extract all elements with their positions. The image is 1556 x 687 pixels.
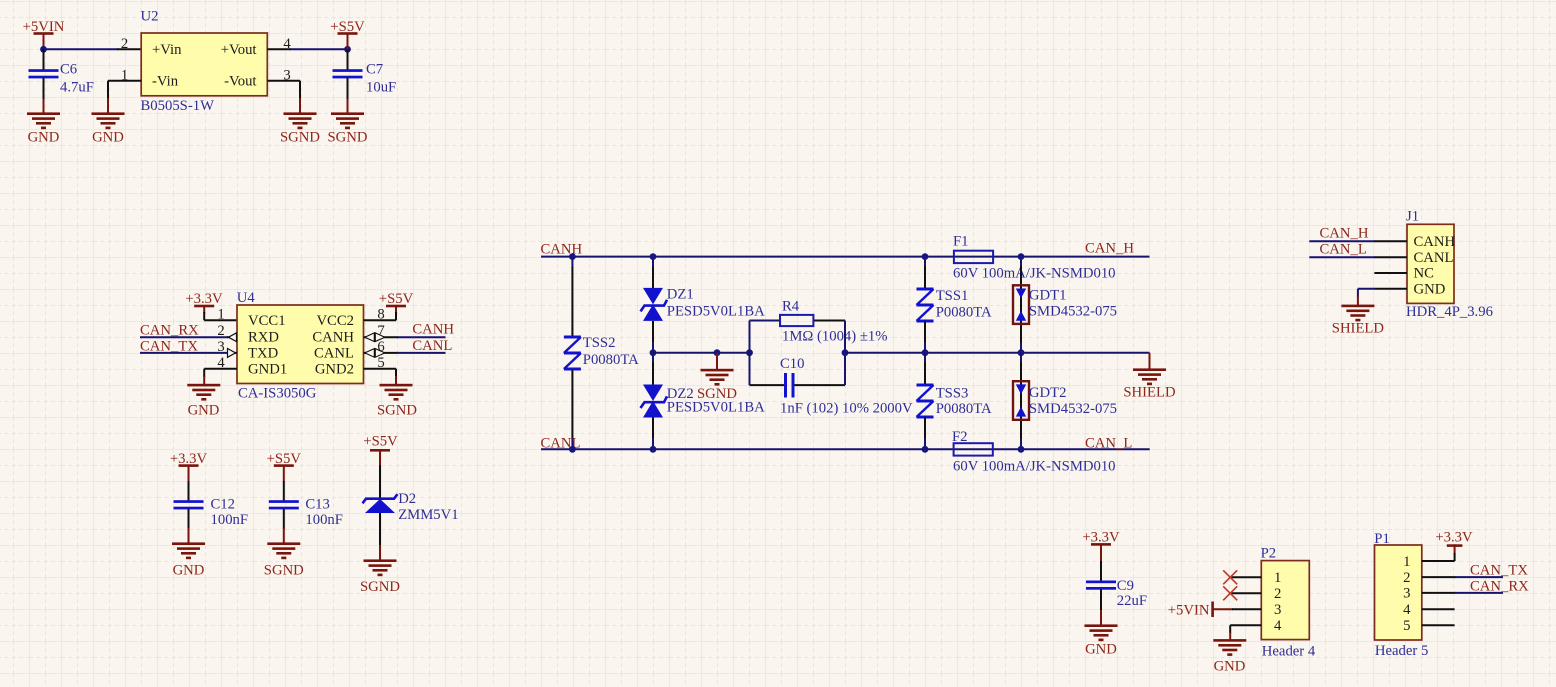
svg-text:CANL: CANL bbox=[314, 346, 354, 362]
svg-text:+Vin: +Vin bbox=[152, 42, 182, 58]
wire CANL bus bbox=[541, 448, 1150, 450]
svg-text:1: 1 bbox=[1403, 554, 1410, 570]
net label CAN_TX at P1 bbox=[1470, 563, 1528, 579]
wire C10 bottom branch bbox=[750, 384, 846, 386]
svg-text:R4: R4 bbox=[782, 299, 800, 315]
svg-text:+5VIN: +5VIN bbox=[1168, 603, 1210, 619]
svg-text:CAN_H: CAN_H bbox=[1085, 241, 1134, 257]
junction CANL/TSS2 bbox=[569, 446, 576, 453]
svg-text:+S5V: +S5V bbox=[363, 434, 398, 450]
svg-text:C7: C7 bbox=[366, 62, 383, 78]
ground SGND at U2 pin 3 bbox=[280, 112, 320, 145]
svg-text:TSS3: TSS3 bbox=[936, 385, 969, 401]
svg-text:VCC2: VCC2 bbox=[316, 313, 354, 329]
U4 pin 5 number bbox=[377, 355, 384, 371]
capacitor C6 4.7uF bbox=[29, 49, 94, 113]
svg-text:C10: C10 bbox=[780, 356, 804, 372]
svg-text:U2: U2 bbox=[141, 8, 159, 24]
wire U4 pin 8 to +S5V bbox=[364, 312, 397, 320]
junction CANH/TSS2 bbox=[569, 253, 576, 260]
svg-text:SGND: SGND bbox=[264, 563, 304, 579]
svg-text:HDR_4P_3.96: HDR_4P_3.96 bbox=[1406, 304, 1493, 320]
svg-text:10uF: 10uF bbox=[366, 80, 396, 96]
wire DZ2 to CANL bbox=[652, 418, 654, 450]
svg-text:VCC1: VCC1 bbox=[248, 313, 286, 329]
net label CAN_RX at P1 bbox=[1470, 578, 1529, 594]
wire U2 pin 3 to SGND bbox=[267, 81, 300, 114]
svg-text:3: 3 bbox=[1274, 602, 1281, 618]
svg-text:B0505S-1W: B0505S-1W bbox=[141, 98, 215, 114]
power port +3.3V at C12 bbox=[170, 451, 208, 482]
wire TSS3 to CANL bbox=[924, 417, 926, 449]
U2 pin 1 number bbox=[121, 68, 128, 84]
wire +3.3V to U4 pin 1 bbox=[204, 312, 237, 320]
wire GDT1 to mid node bbox=[1020, 343, 1022, 353]
net label CAN_TX bbox=[140, 338, 198, 354]
connector P1 Header 5 body bbox=[1374, 531, 1428, 659]
wire R4 top branch bbox=[750, 320, 846, 322]
svg-text:CANH: CANH bbox=[541, 242, 583, 258]
U4 pin 8 number bbox=[377, 307, 384, 323]
junction CANL/GDT2 bbox=[1018, 446, 1025, 453]
ground GND at U2 pin 1 bbox=[92, 112, 125, 145]
junction mid/R4-C10 left bbox=[746, 349, 753, 356]
ground GND under C6 bbox=[27, 112, 60, 145]
svg-text:CANH: CANH bbox=[312, 329, 354, 345]
junction mid/R4-C10 right bbox=[842, 349, 849, 356]
ground GND under U4 bbox=[187, 384, 220, 419]
op-amp U2 B0505S-1W body bbox=[141, 8, 268, 114]
ground SHIELD at mid node bbox=[1123, 353, 1176, 401]
svg-text:-Vin: -Vin bbox=[152, 73, 179, 89]
net label CANL (bus) bbox=[541, 435, 581, 451]
svg-text:C9: C9 bbox=[1117, 578, 1134, 594]
wire GDT2 to CANL bbox=[1020, 439, 1022, 449]
wire CAN_TX to U4 pin 3 bbox=[140, 349, 237, 358]
svg-text:CANH: CANH bbox=[412, 322, 454, 338]
svg-text:3: 3 bbox=[1403, 586, 1410, 602]
svg-text:Header 4: Header 4 bbox=[1262, 644, 1316, 660]
net label CAN_L at J1 bbox=[1320, 241, 1367, 257]
junction mid/SGND bbox=[714, 349, 721, 356]
wire U4 pin 5 to SGND bbox=[364, 369, 397, 385]
capacitor C9 22uF bbox=[1086, 561, 1147, 626]
ground SGND at mid node bbox=[697, 353, 737, 402]
power port +S5V at C13 bbox=[267, 451, 302, 482]
svg-text:TXD: TXD bbox=[248, 346, 279, 362]
svg-text:CAN_L: CAN_L bbox=[1085, 435, 1132, 451]
svg-text:P0080TA: P0080TA bbox=[583, 352, 639, 368]
wire P2 pin 1 stub bbox=[1230, 576, 1261, 578]
transceiver U4 CA-IS3050G body bbox=[237, 290, 364, 402]
wire DZ1 to mid node bbox=[652, 321, 654, 353]
svg-text:100nF: 100nF bbox=[211, 512, 249, 528]
wire mid node to DZ2 bbox=[652, 353, 654, 385]
capacitor C12 100nF bbox=[174, 481, 249, 544]
no-ERC cross P2 pin 2 bbox=[1223, 586, 1237, 600]
wire CANH to TSS1 bbox=[924, 257, 926, 288]
svg-text:60V 100mA/JK-NSMD010: 60V 100mA/JK-NSMD010 bbox=[953, 266, 1116, 282]
svg-text:+3.3V: +3.3V bbox=[1435, 530, 1473, 546]
svg-text:CAN_TX: CAN_TX bbox=[1470, 563, 1528, 579]
svg-text:SHIELD: SHIELD bbox=[1332, 321, 1385, 337]
wire CANH to DZ1 bbox=[652, 257, 654, 288]
power port +S5V at D2 bbox=[363, 434, 398, 466]
TVS diode DZ2 PESD5V0L1BA bbox=[641, 385, 766, 418]
wire U4 pin 7 to CANH label bbox=[364, 333, 446, 342]
junction mid/DZ1 bbox=[650, 349, 657, 356]
power port +3.3V at C9 bbox=[1082, 530, 1120, 562]
wire CANH to TSS2 bbox=[571, 257, 573, 336]
wire U2 pin 4 to +S5V node bbox=[267, 48, 347, 50]
wire mid node to TSS3 bbox=[924, 353, 926, 385]
svg-text:U4: U4 bbox=[237, 290, 256, 306]
TVS diode DZ1 PESD5V0L1BA bbox=[641, 286, 766, 321]
junction CANL/DZ2 bbox=[650, 446, 657, 453]
U2 pin 4 number bbox=[283, 36, 291, 52]
svg-text:GND: GND bbox=[92, 130, 124, 146]
wire TSS1 to mid node bbox=[924, 321, 926, 353]
wire P1 pin 2 to CAN_TX bbox=[1422, 576, 1503, 578]
svg-text:4: 4 bbox=[1274, 618, 1282, 634]
U4 pin 7 number bbox=[377, 323, 384, 339]
wire P1 pin 5 stub bbox=[1422, 624, 1455, 626]
svg-text:-Vout: -Vout bbox=[224, 73, 256, 89]
junction CANH/GDT1 bbox=[1018, 253, 1025, 260]
svg-text:SHIELD: SHIELD bbox=[1123, 385, 1176, 401]
svg-text:F1: F1 bbox=[953, 233, 969, 249]
suppressor TSS1 P0080TA bbox=[917, 288, 993, 321]
svg-text:C6: C6 bbox=[60, 62, 77, 78]
U2 pin 2 number bbox=[121, 36, 128, 52]
svg-text:4.7uF: 4.7uF bbox=[60, 80, 94, 96]
no-ERC cross P2 pin 1 bbox=[1223, 570, 1237, 584]
U2 pin 3 number bbox=[283, 68, 290, 84]
svg-text:P2: P2 bbox=[1261, 546, 1277, 562]
svg-text:100nF: 100nF bbox=[305, 512, 343, 528]
wire CAN_L to J1 pin 2 bbox=[1309, 256, 1407, 258]
wire P1 pin 4 stub bbox=[1422, 608, 1455, 610]
svg-text:1: 1 bbox=[217, 307, 224, 323]
svg-text:SGND: SGND bbox=[377, 403, 417, 419]
svg-text:NC: NC bbox=[1414, 266, 1434, 282]
gas discharge tube GDT2 SMD4532-075 bbox=[1013, 381, 1117, 420]
svg-text:TSS2: TSS2 bbox=[583, 335, 616, 351]
power port +3.3V at P1 pin 1 bbox=[1435, 530, 1473, 554]
ground SGND under U4 bbox=[377, 384, 417, 419]
power port +3.3V at U4 pin 1 bbox=[185, 291, 223, 313]
U4 pin 4 number bbox=[217, 355, 225, 371]
svg-text:DZ1: DZ1 bbox=[667, 286, 694, 302]
svg-text:CAN_H: CAN_H bbox=[1320, 226, 1369, 242]
wire P2 pin 4 to GND bbox=[1230, 625, 1261, 640]
svg-text:GND: GND bbox=[1214, 659, 1246, 675]
svg-text:SMD4532-075: SMD4532-075 bbox=[1029, 304, 1117, 320]
svg-text:5: 5 bbox=[1403, 618, 1410, 634]
ground SGND under D2 bbox=[360, 559, 400, 595]
svg-text:2: 2 bbox=[1403, 570, 1410, 586]
svg-text:2: 2 bbox=[121, 36, 128, 52]
U4 pin 3 number bbox=[217, 339, 224, 355]
junction mid/GDT1 bbox=[1018, 349, 1025, 356]
svg-text:GND: GND bbox=[173, 563, 205, 579]
wire +5VIN to P2 pin 3 bbox=[1232, 608, 1261, 610]
junction CANH/DZ1 bbox=[650, 253, 657, 260]
net label CAN_H (bus right) bbox=[1085, 241, 1134, 257]
svg-text:C13: C13 bbox=[305, 496, 329, 512]
ground GND under C9 bbox=[1085, 624, 1118, 657]
fuse F2 60V 100mA bbox=[952, 429, 1116, 475]
ground SGND under C13 bbox=[264, 542, 304, 578]
wire CANH to GDT1 bbox=[1020, 257, 1022, 344]
wire R4/C10 right branch bbox=[844, 321, 846, 386]
connector J1 HDR_4P_3.96 body bbox=[1406, 208, 1493, 320]
svg-text:GDT2: GDT2 bbox=[1029, 385, 1067, 401]
zener diode D2 ZMM5V1 bbox=[363, 465, 459, 561]
wire CAN_RX to U4 pin 2 bbox=[140, 333, 237, 342]
net label CAN_L (bus right) bbox=[1085, 435, 1132, 451]
svg-text:SMD4532-075: SMD4532-075 bbox=[1029, 401, 1117, 417]
wire P2 pin 2 stub bbox=[1230, 592, 1261, 594]
resistor R4 1M bbox=[780, 299, 887, 345]
wire CAN_H to J1 pin 1 bbox=[1309, 240, 1407, 242]
wire CANH bus bbox=[541, 256, 1150, 258]
gas discharge tube GDT1 SMD4532-075 bbox=[1013, 285, 1117, 324]
svg-text:+S5V: +S5V bbox=[379, 291, 414, 307]
power port +S5V at U4 pin 8 bbox=[379, 291, 414, 313]
svg-text:TSS1: TSS1 bbox=[936, 288, 969, 304]
U4 pin 2 number bbox=[217, 323, 224, 339]
wire P1 pin 1 to +3.3V bbox=[1422, 553, 1455, 561]
node junction +5VIN / C6 bbox=[40, 46, 47, 53]
capacitor C10 1nF bbox=[780, 356, 913, 417]
wire mid node (shield bus right) bbox=[845, 352, 1150, 354]
svg-text:CANL: CANL bbox=[1414, 250, 1454, 266]
capacitor C7 10uF bbox=[333, 49, 397, 113]
net label CANH (bus) bbox=[541, 242, 583, 258]
connector P2 Header 4 body bbox=[1261, 546, 1316, 660]
svg-text:4: 4 bbox=[1403, 602, 1411, 618]
wire mid node (shield bus left) bbox=[653, 352, 750, 354]
svg-text:1nF (102) 10% 2000V: 1nF (102) 10% 2000V bbox=[780, 401, 913, 417]
svg-text:22uF: 22uF bbox=[1117, 593, 1147, 609]
svg-text:PESD5V0L1BA: PESD5V0L1BA bbox=[667, 303, 765, 319]
svg-text:P0080TA: P0080TA bbox=[936, 305, 992, 321]
power port +5VIN bbox=[23, 19, 65, 50]
svg-text:RXD: RXD bbox=[248, 329, 279, 345]
svg-text:1: 1 bbox=[1274, 570, 1281, 586]
fuse F1 60V 100mA bbox=[953, 233, 1116, 281]
svg-text:P1: P1 bbox=[1374, 531, 1390, 547]
svg-text:GND: GND bbox=[188, 403, 220, 419]
net label CANL at U4 bbox=[412, 338, 452, 354]
svg-text:CAN_L: CAN_L bbox=[1320, 241, 1367, 257]
wire +5VIN node to U2 pin 2 bbox=[44, 48, 142, 50]
svg-text:GND: GND bbox=[28, 130, 60, 146]
svg-text:P0080TA: P0080TA bbox=[936, 401, 992, 417]
svg-text:+3.3V: +3.3V bbox=[185, 291, 223, 307]
svg-text:GND: GND bbox=[1414, 282, 1446, 298]
net label CAN_RX bbox=[140, 323, 199, 339]
node junction +S5V / C7 bbox=[344, 46, 351, 53]
power port +5VIN at P2 pin 3 bbox=[1168, 602, 1233, 619]
svg-text:SGND: SGND bbox=[697, 386, 737, 402]
wire J1 pin 3 NC stub bbox=[1374, 272, 1407, 274]
svg-text:+Vout: +Vout bbox=[221, 42, 257, 58]
U4 pin 1 number bbox=[217, 307, 224, 323]
ground GND under P2 bbox=[1213, 639, 1246, 675]
U4 pin 6 number bbox=[377, 339, 384, 355]
svg-text:CANH: CANH bbox=[1414, 234, 1456, 250]
wire mid node to GDT2 bbox=[1020, 353, 1022, 440]
suppressor TSS2 P0080TA bbox=[564, 335, 639, 369]
junction CANL/TSS3 bbox=[922, 446, 929, 453]
svg-text:SGND: SGND bbox=[328, 130, 368, 146]
svg-text:CAN_RX: CAN_RX bbox=[1470, 578, 1529, 594]
svg-text:SGND: SGND bbox=[280, 130, 320, 146]
wire U4 pin 6 to CANL label bbox=[364, 349, 446, 358]
power port +S5V bbox=[330, 19, 365, 50]
wire U2 pin 1 to GND bbox=[108, 81, 141, 114]
wire P1 pin 3 to CAN_RX bbox=[1422, 592, 1503, 594]
net label CANH at U4 bbox=[412, 322, 454, 338]
wire TSS2 to CANL bbox=[571, 370, 573, 449]
junction mid/TSS1 bbox=[922, 349, 929, 356]
ground SHIELD at J1 bbox=[1332, 305, 1385, 337]
svg-text:1MΩ (1004) ±1%: 1MΩ (1004) ±1% bbox=[782, 328, 887, 344]
svg-text:ZMM5V1: ZMM5V1 bbox=[398, 507, 458, 523]
svg-text:J1: J1 bbox=[1406, 208, 1419, 224]
svg-text:2: 2 bbox=[1274, 586, 1281, 602]
wire R4/C10 left branch bbox=[749, 321, 751, 386]
svg-text:CANL: CANL bbox=[412, 338, 452, 354]
svg-text:GND2: GND2 bbox=[315, 362, 354, 378]
wire U4 pin 4 to GND bbox=[204, 369, 237, 385]
capacitor C13 100nF bbox=[269, 481, 343, 544]
ground SGND under C7 bbox=[328, 112, 368, 145]
net label CAN_H at J1 bbox=[1320, 226, 1369, 242]
ground GND under C12 bbox=[172, 542, 205, 578]
svg-text:D2: D2 bbox=[398, 491, 416, 507]
svg-text:GND: GND bbox=[1085, 642, 1117, 658]
wire J1 pin 4 to SHIELD bbox=[1358, 289, 1407, 306]
svg-text:60V 100mA/JK-NSMD010: 60V 100mA/JK-NSMD010 bbox=[953, 459, 1116, 475]
svg-text:F2: F2 bbox=[952, 429, 968, 445]
svg-text:Header 5: Header 5 bbox=[1375, 643, 1428, 659]
svg-text:C12: C12 bbox=[211, 496, 235, 512]
svg-text:GND1: GND1 bbox=[248, 362, 287, 378]
junction CANH/TSS1 bbox=[922, 253, 929, 260]
suppressor TSS3 P0080TA bbox=[917, 385, 993, 417]
svg-text:CA-IS3050G: CA-IS3050G bbox=[238, 385, 317, 401]
svg-text:SGND: SGND bbox=[360, 579, 400, 595]
svg-text:GDT1: GDT1 bbox=[1029, 288, 1067, 304]
